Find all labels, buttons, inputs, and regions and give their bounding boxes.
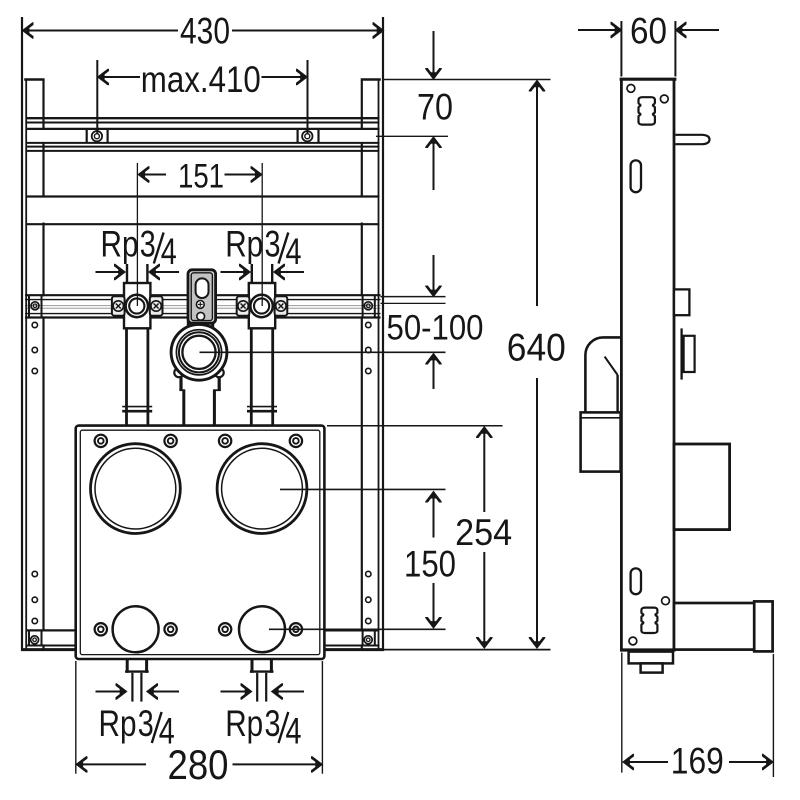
top thin bar — [27, 117, 380, 119]
dim 169 extension lines — [621, 653, 623, 773]
dim 254 line — [483, 428, 485, 512]
side drain elbow — [585, 337, 621, 412]
mounting rail screw left — [31, 302, 39, 310]
max410 extension lines — [96, 60, 98, 134]
left fitting side plate R — [150, 296, 163, 315]
dim Rp34 top-left arrows — [96, 271, 124, 273]
bottom stub right pipe — [256, 673, 258, 702]
svg-text:169: 169 — [671, 740, 724, 782]
plate large hole left — [90, 444, 180, 534]
svg-text:3: 3 — [265, 702, 281, 744]
side cistern plate — [674, 444, 730, 530]
svg-text:Rp: Rp — [101, 223, 139, 265]
side oblong slot top — [631, 160, 641, 192]
svg-text:3: 3 — [140, 223, 156, 265]
bottom stub right collar — [251, 659, 254, 673]
side wall anchor arm — [675, 135, 709, 144]
plate small hole left — [113, 606, 159, 652]
left water fitting pipe above — [126, 264, 128, 284]
side T bracket plate — [680, 328, 682, 379]
right fitting circle — [250, 295, 272, 317]
dim 254 ref line — [327, 425, 503, 427]
right fitting centre line — [261, 163, 263, 306]
large hole leader — [280, 488, 446, 490]
bottom crossbar screw squares — [28, 631, 30, 645]
right fitting body — [249, 283, 275, 328]
svg-text:max.410: max.410 — [141, 58, 261, 100]
screw square left — [86, 129, 88, 143]
left rail top cap — [24, 78, 44, 81]
dim Rp34 bottom-left arrows — [96, 691, 126, 693]
dim 280 extension lines — [75, 661, 77, 774]
screw square right — [297, 129, 299, 143]
svg-text:280: 280 — [168, 741, 229, 788]
right water fitting pipe above — [251, 264, 253, 284]
dim 50-100 arrows — [433, 255, 435, 295]
frame bottom edge — [21, 648, 384, 651]
left pipe union nut — [122, 406, 152, 408]
side rail right edge — [673, 79, 676, 651]
right fitting plate screw R — [276, 301, 286, 311]
left rail web edge — [42, 80, 44, 650]
bottom stub left pipe — [131, 673, 133, 702]
drain centre leader — [200, 351, 446, 353]
left fitting centre line — [136, 163, 138, 306]
dim max410 arrows — [99, 76, 140, 78]
side outlet arm — [674, 603, 755, 650]
side rail tab — [674, 289, 689, 315]
bottom crossbar — [27, 631, 380, 644]
svg-text:150: 150 — [404, 544, 456, 585]
right fitting side plate R — [275, 296, 288, 315]
dim 150 arrows — [433, 493, 435, 538]
dim 60 ticks — [620, 21, 622, 77]
dim 151 arrows — [140, 174, 167, 176]
side rail left edge — [620, 79, 623, 651]
right water fitting pipe below — [250, 328, 253, 427]
side hole top2 — [660, 95, 668, 103]
mounting rail — [25, 296, 381, 316]
right fitting side plate L — [237, 296, 250, 315]
right rail flange outer — [382, 17, 384, 651]
right rail web edge — [361, 80, 363, 650]
bracket lower circle — [197, 312, 205, 320]
svg-text:60: 60 — [630, 10, 667, 52]
left plate screw — [113, 301, 123, 311]
side foot — [629, 652, 673, 664]
fixing screw right — [302, 131, 312, 141]
dim 70 arrows — [433, 31, 435, 78]
svg-text:Rp: Rp — [225, 702, 263, 744]
dim 169 line — [624, 761, 668, 763]
drain pipe shoulder — [179, 389, 185, 391]
side hole bottom2 — [662, 597, 670, 605]
right pipe union nut — [247, 406, 277, 408]
svg-text:3: 3 — [265, 223, 281, 265]
small hole leader — [269, 628, 446, 630]
bottom crossbar screw left — [31, 636, 39, 644]
mounting plate — [76, 426, 325, 659]
dim Rp34 bottom-right arrows — [221, 691, 251, 693]
upper crossbar — [27, 198, 380, 223]
plate screws top — [95, 435, 302, 447]
dim Rp34 top-right arrows — [221, 271, 249, 273]
svg-text:640: 640 — [507, 327, 566, 370]
DIMENSIONS-LEFT — [24, 9, 566, 788]
drain lower pipe — [182, 390, 185, 426]
svg-text:151: 151 — [178, 158, 224, 196]
side hole top — [627, 85, 635, 93]
side outlet end cap — [754, 601, 772, 651]
left fitting side plate L — [112, 296, 125, 315]
left plate screw R — [151, 301, 161, 311]
right rail top cap — [361, 78, 381, 81]
plate screws bottom — [95, 623, 302, 635]
left fitting circle — [126, 295, 148, 317]
svg-text:430: 430 — [180, 9, 230, 51]
dim 430 line — [24, 30, 178, 32]
svg-text:3: 3 — [138, 702, 154, 744]
left water fitting pipe below — [125, 328, 128, 427]
bayonet bracket — [188, 270, 216, 323]
side drain socket — [581, 412, 621, 471]
side hole bottom — [629, 637, 637, 645]
drain lugs — [174, 368, 183, 377]
dim 60 arrows — [578, 10, 773, 782]
svg-text:Rp: Rp — [99, 702, 137, 744]
side rail bottom cap — [620, 648, 676, 651]
side rail top cap — [620, 78, 677, 81]
side wavy slot top — [638, 97, 654, 124]
thin bar 2 — [27, 146, 380, 148]
side oblong slot bottom — [631, 568, 641, 594]
right fitting plate screw L — [238, 301, 248, 311]
svg-text:50-100: 50-100 — [387, 309, 484, 348]
mounting rail end squares — [28, 296, 30, 317]
drain fitting rings — [171, 324, 227, 380]
bottom stub left collar — [126, 659, 129, 673]
screw bar — [27, 130, 380, 142]
fixing screw left — [92, 131, 102, 141]
bottom ref line right — [384, 649, 551, 651]
bracket lower gray — [190, 316, 212, 327]
dim 70 ref lines — [383, 79, 551, 81]
side wavy slot bottom — [641, 608, 657, 633]
plate large hole right — [217, 444, 307, 534]
svg-text:Rp: Rp — [225, 223, 263, 265]
bracket screw — [196, 301, 204, 309]
bracket top pipe stubs — [187, 321, 190, 329]
plate small hole right — [239, 606, 285, 652]
left rail holes — [32, 322, 37, 623]
right rail holes — [366, 322, 371, 623]
bottom crossbar screw right — [364, 636, 372, 644]
dim 50-100 ref lines — [381, 296, 446, 298]
svg-text:254: 254 — [455, 512, 512, 553]
bracket slot — [196, 278, 209, 298]
left fitting body — [124, 283, 150, 328]
dim 640 line — [536, 82, 538, 306]
svg-text:70: 70 — [417, 86, 453, 128]
left rail flange outer — [21, 17, 23, 651]
drain socket pipe — [179, 374, 182, 391]
dim 280 line — [78, 763, 147, 765]
mounting rail screw right — [364, 302, 372, 310]
